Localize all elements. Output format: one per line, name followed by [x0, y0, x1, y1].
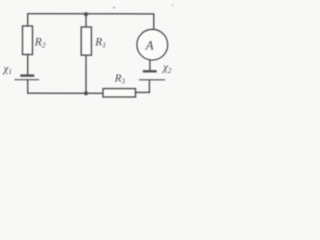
svg-text:A: A [145, 37, 154, 52]
